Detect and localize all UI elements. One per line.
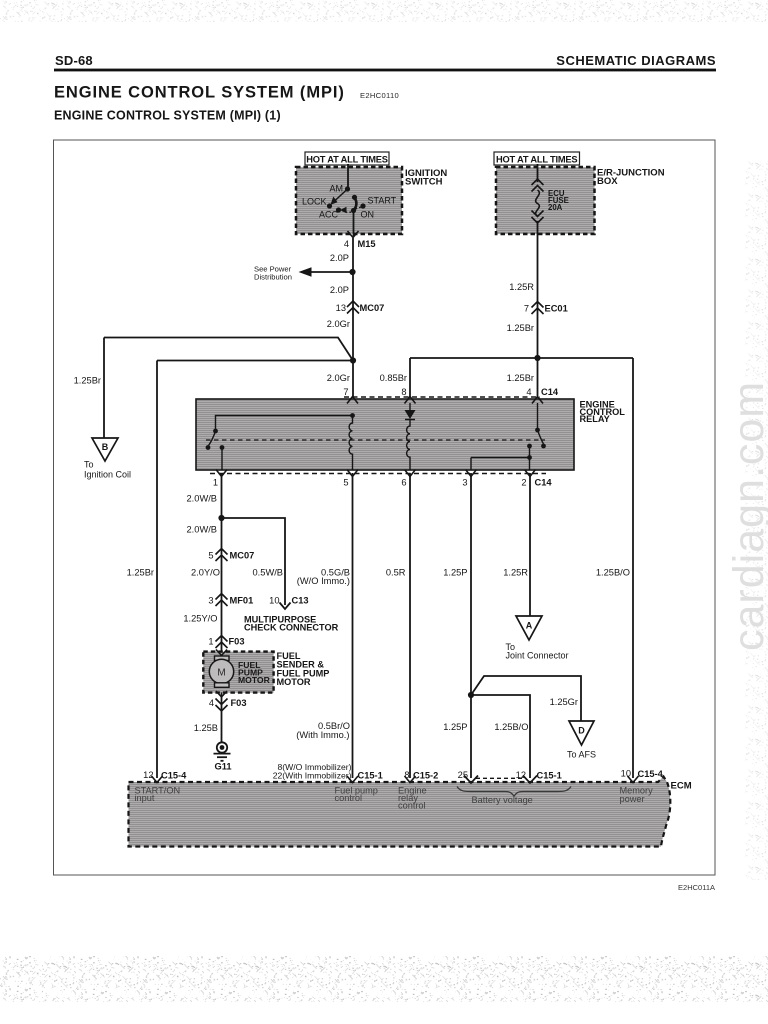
wire: junction to ECM pin12 branch [471,695,530,778]
relay coil 2 (pins 8-6) [407,420,410,471]
svg-text:10: 10 [621,769,631,779]
hot-at-all-times label right [494,152,580,165]
fuel box exit chevron [216,691,227,697]
wire: hot label into fuse [537,164,539,182]
junction node fuel pump column [218,515,224,521]
ECM entry chevron battery voltage pin 12 [523,776,537,784]
wire: horizontal branch pin8 to memory power column [410,357,633,359]
svg-text:ENGINE CONTROL SYSTEM (MPI): ENGINE CONTROL SYSTEM (MPI) [54,84,345,102]
wire: relay pin2 down to triangle A [529,473,531,616]
triangle A to joint connector [506,616,569,661]
svg-text:1.25R: 1.25R [509,282,534,292]
ECM entry chevron fuel pump control [347,776,358,783]
connector F03 pin 4 [209,698,247,711]
wire: memory power column down to ECM [632,358,634,778]
svg-text:2.0Y/O: 2.0Y/O [191,568,220,578]
svg-text:C15-4: C15-4 [638,769,664,779]
relay pin 7 chevron [347,397,358,404]
relay switch left arm [209,431,216,446]
svg-text:1.25B/O: 1.25B/O [494,722,528,732]
connector C13 pin 10 chevron [280,603,291,610]
svg-text:2.0Gr: 2.0Gr [327,373,350,383]
svg-text:To AFS: To AFS [567,750,596,760]
svg-text:12: 12 [143,770,153,780]
svg-text:0.5W/B: 0.5W/B [253,568,283,578]
wire: hot label to AM contact [347,164,349,188]
wire: relay pin6 down to ECM [409,473,411,778]
relay switch right: pin4 to pivot [537,403,539,428]
svg-text:G11: G11 [214,762,231,772]
svg-text:7: 7 [343,387,348,397]
svg-text:C15-4: C15-4 [161,771,187,781]
ecu fuse 20A [532,179,569,223]
svg-text:E2HC011A: E2HC011A [678,883,715,892]
triangle B to ignition coil [84,438,131,480]
svg-text:1.25Br: 1.25Br [507,323,534,333]
svg-text:4: 4 [526,387,531,397]
svg-text:ACC: ACC [319,210,339,220]
relay switch right contact wiring to pins 3 and 2 [471,448,530,471]
junction node at ignition column [350,357,356,363]
svg-text:SCHEMATIC DIAGRAMS: SCHEMATIC DIAGRAMS [556,53,716,68]
ECM entry chevron engine relay control [405,776,416,783]
relay connector C14 dashed line bottom [210,473,546,475]
svg-text:BOX: BOX [597,176,618,187]
svg-text:2: 2 [521,478,526,488]
svg-text:1.25B/O: 1.25B/O [596,568,630,578]
relay pin 5 chevron [347,470,358,477]
svg-text:1.25R: 1.25R [503,568,528,578]
svg-text:4: 4 [209,698,214,708]
relay pin 1 chevron [216,470,227,477]
wire: branch to AFS [471,676,581,721]
svg-text:control: control [335,793,363,803]
svg-text:CHECK CONNECTOR: CHECK CONNECTOR [244,623,339,633]
svg-text:AM: AM [330,184,344,194]
svg-text:MF01: MF01 [230,596,254,606]
svg-text:SD-68: SD-68 [55,53,93,68]
scan noise column right edge [745,160,768,880]
svg-text:Joint Connector: Joint Connector [506,651,569,661]
svg-text:C15-1: C15-1 [537,771,562,781]
svg-text:7: 7 [524,304,529,314]
relay diode at pin 8 [409,403,411,410]
wire: ON contact to box bottom [353,211,355,236]
svg-text:MOTOR: MOTOR [277,677,311,687]
svg-text:ON: ON [361,210,375,220]
wire: down to relay pin 7 [352,357,354,398]
svg-text:MOTOR: MOTOR [238,675,271,685]
svg-text:M: M [217,668,225,679]
svg-text:12: 12 [516,770,526,780]
ground G11 [214,742,232,771]
svg-text:C15-2: C15-2 [413,771,438,781]
wire: branch to ignition coil (upper horizontal) [104,338,353,361]
svg-text:B: B [102,442,109,452]
fuel sender side label [277,651,330,687]
connector MF01 pin 3 [208,594,253,607]
svg-text:0.5R: 0.5R [386,568,406,578]
ignition switch contacts and arm [302,184,397,220]
relay pin 3 chevron [466,470,477,477]
svg-text:1.25Br: 1.25Br [127,568,154,578]
connector MC07 pin 5 [208,549,254,562]
wire: start/on column down to ECM [156,361,158,779]
header rule [54,69,716,72]
svg-text:1.25Br: 1.25Br [74,376,101,386]
svg-text:ENGINE CONTROL SYSTEM (MPI) (1: ENGINE CONTROL SYSTEM (MPI) (1) [54,109,281,123]
svg-text:13: 13 [336,303,346,313]
svg-text:START: START [368,196,397,206]
svg-text:2.0W/B: 2.0W/B [187,525,217,535]
relay pin 2 chevron [525,470,536,477]
relay mechanical link dashed [206,439,545,441]
svg-text:2.0Gr: 2.0Gr [327,319,350,329]
relay pin 4 chevron [532,397,543,404]
ignition switch box [296,167,447,234]
svg-text:input: input [135,793,155,803]
see power distribution branch [254,265,356,282]
wire: relay pin3 down to ECM pin25 [470,473,472,778]
svg-text:control: control [398,801,426,811]
junction node fuse column [534,355,540,361]
fuel pump motor symbol [209,656,233,687]
svg-text:F03: F03 [231,698,247,708]
svg-text:HOT AT ALL TIMES: HOT AT ALL TIMES [496,154,578,164]
battery voltage pin dashed link [476,777,523,779]
diagram frame [54,140,716,875]
svg-text:power: power [620,794,645,804]
svg-text:2.0P: 2.0P [330,253,349,263]
svg-text:To: To [84,460,94,470]
scan noise band top [0,0,768,22]
svg-text:4: 4 [344,239,349,249]
relay switch right arm [538,430,544,444]
e/r junction box [496,167,665,234]
wire: relay pin5 down to ECM [352,473,354,778]
svg-text:3: 3 [208,596,213,606]
wire: vertical to triangle B [103,338,105,439]
svg-text:1: 1 [208,637,213,647]
engine control relay box [196,399,625,470]
svg-text:C14: C14 [535,478,553,488]
ECM entry chevron start/on [152,776,163,783]
relay pin 6 chevron [405,470,416,477]
ECM box [129,777,671,847]
svg-text:E2HC0110: E2HC0110 [360,91,399,100]
svg-text:1.25Gr: 1.25Gr [550,697,578,707]
svg-text:1.25B: 1.25B [194,723,218,733]
svg-text:ECM: ECM [671,781,692,792]
wire: fuel box to ground [221,693,223,743]
svg-text:2.0P: 2.0P [330,285,349,295]
svg-text:1: 1 [213,478,218,488]
wire: branch to ECM start/on (lower horizontal) [157,360,353,362]
svg-text:5: 5 [208,551,213,561]
svg-text:HOT AT ALL TIMES: HOT AT ALL TIMES [306,154,388,164]
connector EC01 pin 7 [524,302,568,315]
svg-text:Battery voltage: Battery voltage [472,795,533,805]
svg-text:C14: C14 [541,387,559,397]
svg-text:M15: M15 [358,239,376,249]
svg-text:A: A [526,621,533,631]
svg-text:EC01: EC01 [545,304,568,314]
svg-text:F03: F03 [229,637,245,647]
relay coil 1 (pins 7-5) [349,416,352,471]
svg-text:C13: C13 [292,596,309,606]
wire: fuse to relay pin 4 [537,221,539,398]
svg-text:3: 3 [462,478,467,488]
relay switch left: pin7 wire to pivot [216,416,353,430]
svg-text:cardiagn.com: cardiagn.com [725,381,768,651]
fuel box entry chevron [216,650,227,656]
battery voltage underbrace [457,787,571,797]
svg-text:MC07: MC07 [360,303,385,313]
wire: branch to check connector C13 [222,518,286,605]
ECM entry chevron battery voltage pin 25 [464,776,478,784]
junction node battery voltage [468,692,474,698]
svg-text:D: D [578,726,585,736]
svg-text:0.85Br: 0.85Br [380,373,407,383]
connector MC07 pin 13 [336,301,385,314]
svg-text:Ignition Coil: Ignition Coil [84,470,131,480]
connector M15 pin 4 chevron [348,231,359,238]
fuel pump motor box [203,652,273,693]
svg-text:(With Immo.): (With Immo.) [296,730,349,740]
wire: relay pin1 down fuel pump column [221,473,223,652]
hot-at-all-times label left [305,152,389,165]
svg-text:1.25P: 1.25P [443,568,467,578]
wire: M15 to junction, label 2.0P [352,238,354,357]
svg-text:(W/O Immo.): (W/O Immo.) [297,576,350,586]
scan noise band bottom [0,956,768,1002]
svg-text:8: 8 [401,387,406,397]
svg-text:C15-1: C15-1 [358,771,383,781]
svg-text:8: 8 [404,770,409,780]
relay switch left contact to pin 1 [221,449,223,470]
triangle D to AFS [567,721,596,760]
svg-text:RELAY: RELAY [580,414,610,424]
svg-text:SWITCH: SWITCH [405,176,443,187]
relay pin 8 chevron [405,397,416,404]
svg-text:22(With Immobilizer): 22(With Immobilizer) [273,771,352,781]
ECM entry chevron memory power [628,776,639,783]
connector F03 pin 1 [208,636,244,649]
svg-text:LOCK: LOCK [302,197,327,207]
svg-text:20A: 20A [548,203,563,212]
wire: down to relay pin 8 [409,358,411,398]
relay connector C14 dashed line top [344,396,540,398]
svg-text:6: 6 [401,478,406,488]
svg-text:25: 25 [458,770,468,780]
svg-text:1.25Y/O: 1.25Y/O [183,614,217,624]
svg-text:10: 10 [269,596,279,606]
svg-text:Distribution: Distribution [254,273,292,282]
svg-text:1.25P: 1.25P [443,722,467,732]
svg-text:1.25Br: 1.25Br [507,373,534,383]
svg-text:MC07: MC07 [230,551,255,561]
svg-text:5: 5 [343,478,348,488]
svg-text:2.0W/B: 2.0W/B [187,494,217,504]
